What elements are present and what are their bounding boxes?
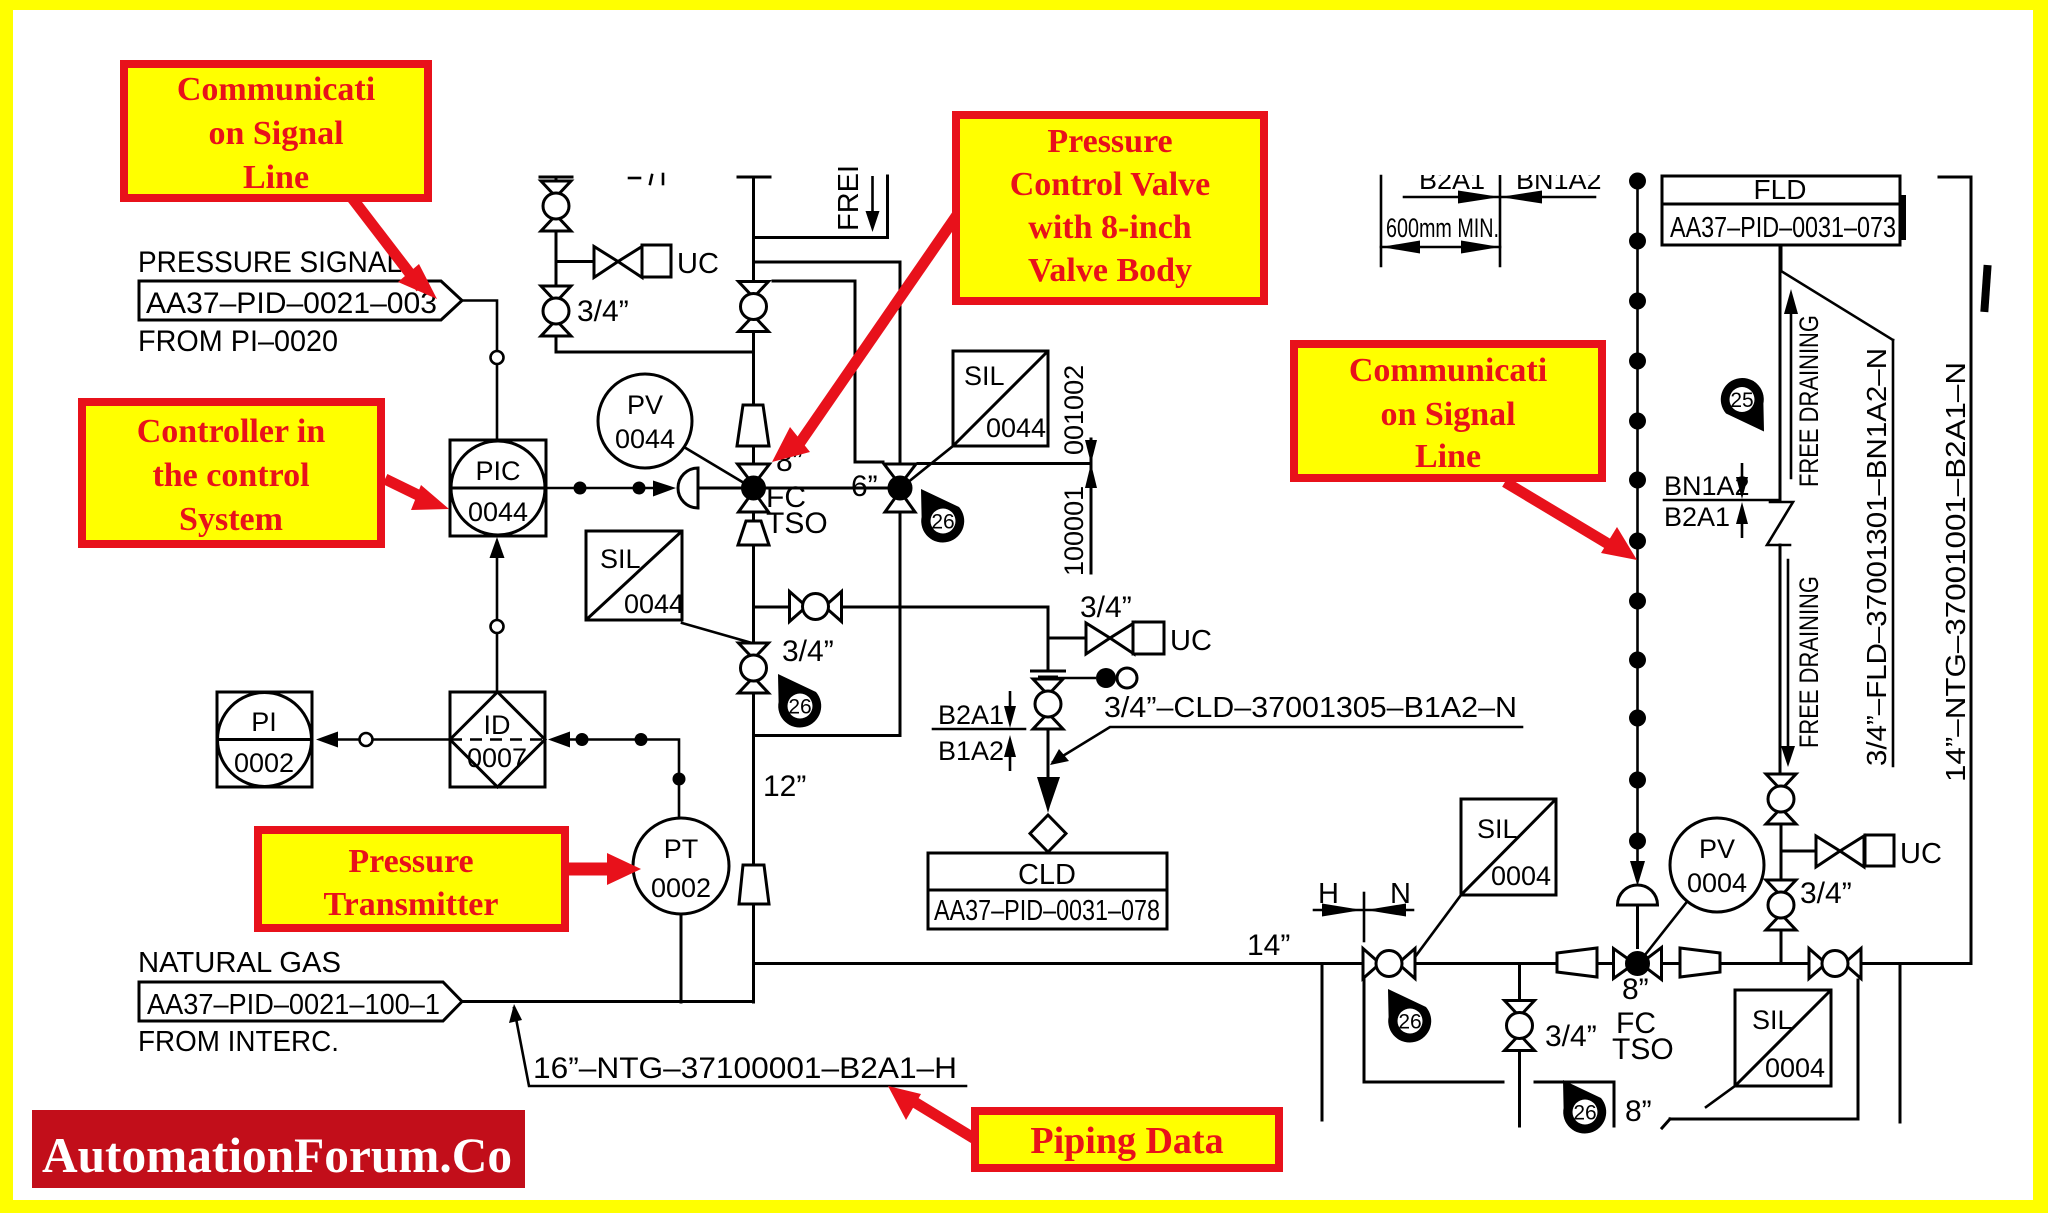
arrow PIC signal to dome xyxy=(653,481,676,497)
wire riser top tick xyxy=(738,176,770,179)
wire 6-inch valve bottom return xyxy=(754,511,901,736)
wire PIC up signal upper xyxy=(496,634,499,692)
wire H N marker tick xyxy=(1363,893,1366,941)
arrow dim HN left xyxy=(1366,904,1406,917)
actuator dome PIC valve xyxy=(678,468,698,508)
wire cropped text mark a xyxy=(629,177,640,180)
wire 3/4 branch stem upper xyxy=(1518,964,1521,1002)
svg-text:0004: 0004 xyxy=(1687,868,1747,898)
wire SIL0044-2 leader xyxy=(907,446,953,483)
instrument ID-0007 diamond xyxy=(450,692,545,787)
wire B2A1 B1A2 divider xyxy=(933,728,1025,731)
wire drain label underline vertical xyxy=(1892,340,1895,766)
svg-text:AA37–PID–0031–073: AA37–PID–0031–073 xyxy=(1670,212,1896,244)
arrow drain solid into diamond xyxy=(1037,777,1060,813)
valve control 6-inch xyxy=(884,464,916,512)
wire left vent line vertical xyxy=(555,177,558,193)
arrow signal down into dome xyxy=(1630,861,1645,886)
wire reducer to ballvalve4 xyxy=(1720,962,1809,965)
reducer on 12-inch riser lower xyxy=(739,865,769,904)
svg-text:3/4”–FLD–37001301–BN1A2–N: 3/4”–FLD–37001301–BN1A2–N xyxy=(1861,348,1892,766)
wire free draining 1 underline xyxy=(1790,313,1793,478)
wire PV0044 leader xyxy=(684,447,749,486)
svg-text:0044: 0044 xyxy=(615,424,675,454)
callout arrow controller xyxy=(385,479,424,498)
instrument PV-0004 circle xyxy=(1670,818,1764,912)
svg-text:3/4”–CLD–37001305–B1A2–N: 3/4”–CLD–37001305–B1A2–N xyxy=(1104,692,1517,724)
actuator stem PV-0004 xyxy=(1636,905,1639,949)
svg-text:3/4”: 3/4” xyxy=(577,295,629,328)
svg-text:Controller in: Controller in xyxy=(137,413,326,450)
valve CLD drain (x1048 y704) xyxy=(1033,679,1063,729)
instrument PI-0002 circle xyxy=(218,693,312,787)
wire FREI vent loop xyxy=(754,176,888,238)
arrow marker B2A1 up xyxy=(1736,502,1748,538)
svg-text:3/4”: 3/4” xyxy=(1545,1020,1597,1053)
valve hand vent 3/4 (x556 y311) xyxy=(541,286,571,336)
arrow leader 16-inch xyxy=(509,1004,522,1023)
wire PIC to control valve signal xyxy=(546,487,654,490)
svg-text:PRESSURE SIGNAL: PRESSURE SIGNAL xyxy=(138,246,402,279)
svg-text:System: System xyxy=(179,501,283,538)
instrument PIC-0044 midline xyxy=(451,487,545,490)
logo AutomationForum.Co xyxy=(32,1110,525,1188)
reducer left of 8-inch valve xyxy=(1557,948,1597,977)
valve control PV-0004 8-inch FC TSO xyxy=(1614,948,1662,980)
wire drain between valves xyxy=(1780,824,1783,880)
callout box pressure transmitter xyxy=(258,830,565,928)
arrow dim 600mm right xyxy=(1461,241,1500,254)
wire drain leader diagonal xyxy=(1781,271,1893,340)
svg-text:the control: the control xyxy=(152,457,309,494)
wire CLD drop blind to valve xyxy=(1047,638,1050,668)
function box SIL-0044-1 xyxy=(586,531,682,620)
flag NATURAL GAS xyxy=(139,982,462,1021)
arrow marker B1A2 up xyxy=(1004,735,1016,771)
wire loop right segment xyxy=(1535,1082,1614,1126)
teardrop 26 at 14-inch valve xyxy=(1388,989,1431,1043)
wire vent top tick xyxy=(540,176,572,179)
arrow line class upper xyxy=(1085,440,1097,464)
wire ballvalve4 to right riser xyxy=(1860,962,1971,965)
svg-text:N: N xyxy=(1390,878,1411,910)
svg-text:6”: 6” xyxy=(851,470,878,503)
function box SIL-0004-1 xyxy=(1461,799,1556,895)
valve 3/4 drop (x1519.5 y1025.5) xyxy=(1505,1001,1535,1051)
svg-text:FREE DRAINING: FREE DRAINING xyxy=(1794,576,1824,748)
svg-text:PIC: PIC xyxy=(475,456,520,486)
svg-text:ID: ID xyxy=(484,710,511,740)
teardrop 26 at 8-inch loop xyxy=(1563,1080,1606,1134)
svg-text:TSO: TSO xyxy=(766,507,828,540)
wire loop hook end xyxy=(1662,1119,1670,1128)
svg-text:AA37–PID–0031–078: AA37–PID–0031–078 xyxy=(934,895,1160,927)
junction dot PT riser xyxy=(673,773,686,786)
teardrop 25 xyxy=(1721,378,1764,432)
svg-text:UC: UC xyxy=(677,248,719,280)
wire loop A to 6-inch valve xyxy=(754,262,901,463)
svg-text:CLD: CLD xyxy=(1018,859,1076,891)
svg-text:UC: UC xyxy=(1900,838,1942,870)
arrow marker BN1A2 down xyxy=(1736,463,1748,499)
valve UC gate FLD (x1840.5 y851) xyxy=(1816,836,1864,867)
box UC vent xyxy=(642,245,671,277)
svg-text:on Signal: on Signal xyxy=(208,115,343,152)
instrument ID-0007 dashed midline xyxy=(450,738,545,741)
svg-text:FREI: FREI xyxy=(833,165,865,231)
junction dot PIC out 2 xyxy=(633,482,646,495)
svg-text:SIL: SIL xyxy=(1752,1005,1793,1035)
signal comm line dotted with junction dots xyxy=(1629,173,1646,863)
svg-text:PV: PV xyxy=(1699,834,1735,864)
svg-text:TSO: TSO xyxy=(1612,1033,1674,1066)
svg-text:Piping Data: Piping Data xyxy=(1030,1120,1223,1162)
svg-text:H: H xyxy=(1318,878,1339,910)
arrow FREI down xyxy=(866,176,880,232)
wire pipe break Z symbol xyxy=(1767,502,1793,545)
svg-text:B2A1: B2A1 xyxy=(1664,502,1730,532)
svg-text:0044: 0044 xyxy=(624,589,684,619)
svg-text:with 8-inch: with 8-inch xyxy=(1028,209,1192,246)
callout arrow pressure transmitter xyxy=(568,863,610,876)
wire PI to o xyxy=(337,738,359,741)
wire loop under ballvalve 14 xyxy=(1364,980,1503,1082)
wire dim 600mm line xyxy=(1381,246,1500,249)
valve hand vent top (x556 y206) xyxy=(541,181,571,231)
callout arrow communication signal line right xyxy=(1505,482,1615,548)
svg-text:FREE DRAINING: FREE DRAINING xyxy=(1794,315,1824,487)
callout box piping data xyxy=(975,1111,1279,1168)
wire dim top line xyxy=(1404,196,1595,199)
wire dome stem to valve1 xyxy=(698,487,742,490)
valve control PV-0044 8-inch FC TSO xyxy=(738,464,770,512)
svg-text:AutomationForum.Co: AutomationForum.Co xyxy=(42,1127,512,1183)
arrow into ID xyxy=(548,732,570,748)
wire drop at 1900 xyxy=(1899,964,1902,1123)
svg-text:14”–NTG–37001001–B2A1–N: 14”–NTG–37001001–B2A1–N xyxy=(1940,362,1971,782)
callout box communication signal line left xyxy=(124,64,428,198)
svg-text:0004: 0004 xyxy=(1491,861,1551,891)
svg-text:16”–NTG–37100001–B2A1–H: 16”–NTG–37100001–B2A1–H xyxy=(533,1052,957,1085)
svg-text:3/4”: 3/4” xyxy=(1800,877,1852,910)
valve FLD drain upper (x1781 y799) xyxy=(1766,774,1796,824)
wire valve1 to valve2 link xyxy=(764,487,889,490)
node o flag to PIC xyxy=(491,351,504,364)
arrow dim 600mm left xyxy=(1381,241,1420,254)
svg-text:B1A2: B1A2 xyxy=(938,736,1004,766)
svg-text:0044: 0044 xyxy=(986,413,1046,443)
arrow FREE DRAINING down xyxy=(1781,746,1795,767)
svg-text:Line: Line xyxy=(243,159,309,196)
diamond CLD injection point xyxy=(1030,815,1066,852)
valve FLD drain lower (x1781 y905) xyxy=(1766,880,1796,930)
wire flag1 to PIC down xyxy=(462,301,497,351)
svg-text:FLD: FLD xyxy=(1754,174,1807,205)
arrow marker B2A1 down xyxy=(1004,691,1016,728)
valve riser isolation (x753.5 y306.5) xyxy=(739,282,769,332)
svg-text:0007: 0007 xyxy=(467,743,527,773)
callout arrow piping data xyxy=(911,1100,975,1139)
wire 8-inch valve to reducer xyxy=(1662,962,1680,965)
arrow leader CLD xyxy=(1050,749,1069,765)
svg-text:PI: PI xyxy=(251,707,277,737)
svg-text:Line: Line xyxy=(1415,438,1481,475)
wire cropped text mark c xyxy=(662,174,665,184)
instrument PIC-0044 square xyxy=(450,440,546,536)
svg-text:SIL: SIL xyxy=(600,544,641,574)
svg-text:Transmitter: Transmitter xyxy=(324,886,499,923)
svg-text:Valve Body: Valve Body xyxy=(1028,252,1192,289)
junction dot PIC out 1 xyxy=(574,482,587,495)
svg-text:8”: 8” xyxy=(1622,973,1649,1006)
callout arrow pressure control valve xyxy=(797,215,957,447)
actuator dome PV-0004 valve xyxy=(1618,885,1658,905)
valve 14-inch ball (x1389 y963.5) xyxy=(1363,949,1415,979)
wire H N dim line xyxy=(1314,909,1413,912)
wire drain pipe upper segment xyxy=(1779,245,1782,500)
wire o to ID xyxy=(374,738,450,741)
box UC CLD xyxy=(1133,622,1164,654)
wire 16-inch label leader xyxy=(514,1008,966,1086)
callout box pressure control valve xyxy=(956,115,1264,301)
wire drain pipe mid segment xyxy=(1779,545,1782,775)
svg-text:3/4”: 3/4” xyxy=(1080,591,1132,624)
arrow dim HN right xyxy=(1322,904,1362,917)
wire loop B to 6-inch valve xyxy=(773,281,883,462)
wire PV0004 leader xyxy=(1641,903,1686,960)
reducer right of 8-inch valve xyxy=(1680,948,1720,977)
teardrop 26 at 6-inch valve xyxy=(921,489,964,543)
instrument PI-0002 midline xyxy=(218,738,311,741)
wire SIL0044-1 leader xyxy=(682,623,752,643)
svg-text:BN1A2: BN1A2 xyxy=(1664,471,1750,501)
svg-text:SIL: SIL xyxy=(964,361,1005,391)
svg-text:Communicati: Communicati xyxy=(177,71,375,108)
wire drain UC branch xyxy=(1781,850,1816,853)
svg-text:FROM PI–0020: FROM PI–0020 xyxy=(138,325,338,358)
wire main 12-inch riser vertical pipe xyxy=(752,177,755,1002)
spectacle blind plates xyxy=(1030,671,1066,677)
instrument PV-0044 circle xyxy=(598,374,692,468)
svg-text:14”: 14” xyxy=(1247,929,1290,962)
arrow up into PIC xyxy=(490,537,505,558)
instrument PIC-0044 circle xyxy=(451,441,545,535)
function box SIL-0044-2 xyxy=(953,351,1048,446)
arrow dim B2A1 right xyxy=(1458,191,1500,204)
wire vent UC branch xyxy=(556,260,592,263)
spectacle blind closed disc xyxy=(1096,668,1116,688)
wire pipe valve to reducer xyxy=(1415,962,1556,965)
wire bottom 14-inch pipe xyxy=(754,962,1364,965)
teardrop 26 at bypass valve xyxy=(778,674,821,728)
wire vent between valves xyxy=(555,219,558,298)
break tick right pipe xyxy=(1980,265,1991,312)
box CLD table xyxy=(928,853,1167,929)
wire CLD valve to drain arrow xyxy=(1047,729,1050,777)
junction dot ID out 1 xyxy=(576,733,589,746)
svg-text:Pressure: Pressure xyxy=(1047,123,1172,160)
wire drain valve to pipe xyxy=(1780,930,1783,964)
wire o to PIC top xyxy=(496,365,499,440)
svg-text:0004: 0004 xyxy=(1765,1053,1825,1083)
valve UC gate CLD (x1109.5 y638) xyxy=(1086,623,1134,654)
svg-text:Communicati: Communicati xyxy=(1349,352,1547,389)
valve UC gate vent (x617.5 y261.5) xyxy=(594,247,642,278)
svg-text:PV: PV xyxy=(627,390,663,420)
wire 3/4 branch stem lower xyxy=(1518,1050,1521,1126)
svg-text:100001: 100001 xyxy=(1059,486,1089,576)
arrow line class lower xyxy=(1085,464,1097,489)
wire free draining 2 underline xyxy=(1787,560,1790,747)
function box SIL-0004-2 xyxy=(1735,990,1831,1086)
svg-text:PT: PT xyxy=(664,834,699,864)
wire right riser xyxy=(1939,177,1971,964)
svg-text:B2A1: B2A1 xyxy=(938,700,1004,730)
valve outlet ball (x1835 y963.5) xyxy=(1809,949,1861,979)
svg-text:12”: 12” xyxy=(763,770,806,803)
svg-text:AA37–PID–0021–100–1: AA37–PID–0021–100–1 xyxy=(147,989,440,1021)
spectacle blind link xyxy=(1058,677,1096,680)
wire line-class boundary vertical xyxy=(1090,439,1093,573)
callout box controller xyxy=(82,402,381,544)
svg-text:001002: 001002 xyxy=(1059,365,1089,455)
wire reducer to 8-inch valve xyxy=(1597,962,1613,965)
wire CLD UC branch xyxy=(1048,637,1086,640)
svg-text:25: 25 xyxy=(1730,389,1753,412)
wire loop under ballvalve2 xyxy=(1670,980,1858,1119)
instrument ID-0007 square xyxy=(450,692,545,787)
wire SIL0004-1 leader xyxy=(1412,895,1461,961)
node o PI to ID xyxy=(360,733,373,746)
svg-text:NATURAL GAS: NATURAL GAS xyxy=(138,947,341,979)
wire bypass 607 right xyxy=(842,607,1048,638)
wire cropped text mark b xyxy=(650,175,652,184)
svg-text:0002: 0002 xyxy=(651,873,711,903)
valve bypass ball (x815.5 y606.5) xyxy=(790,592,842,622)
wire SIL0004-2 leader xyxy=(1706,1086,1735,1107)
reducer above control valve 1 xyxy=(737,405,769,446)
wire ID to PT corner xyxy=(568,740,679,819)
callout box communication signal line right xyxy=(1294,344,1602,478)
arrow FREE DRAINING up xyxy=(1784,289,1798,314)
arrow into PI xyxy=(316,732,338,748)
svg-text:0002: 0002 xyxy=(234,748,294,778)
svg-text:3/4”: 3/4” xyxy=(782,635,834,668)
wire vent valve2 to corner to riser xyxy=(556,324,754,352)
wire 6-inch valve top header to line-class marker xyxy=(918,462,1091,465)
wire PT to bottom pipe xyxy=(680,914,683,1002)
wire drain line from FLD box xyxy=(1780,245,1783,271)
box UC FLD xyxy=(1865,835,1894,866)
svg-text:AA37–PID–0021–003: AA37–PID–0021–003 xyxy=(146,287,437,320)
junction dot ID out 2 xyxy=(635,733,648,746)
svg-text:FROM INTERC.: FROM INTERC. xyxy=(138,1026,339,1058)
svg-text:600mm MIN.: 600mm MIN. xyxy=(1386,213,1499,243)
svg-text:SIL: SIL xyxy=(1477,814,1518,844)
svg-text:8”: 8” xyxy=(1625,1095,1652,1128)
wire dim B2A1 BN1A2 left tick xyxy=(1380,176,1383,266)
wire dim B2A1 BN1A2 center tick xyxy=(1499,176,1502,266)
reducer below control valve 1 xyxy=(738,521,769,545)
arrow dim BN1A2 left xyxy=(1500,191,1542,204)
node o PIC to ID xyxy=(491,620,504,633)
break tick mid pipe xyxy=(1899,195,1906,240)
wire 3/4 CLD label leader xyxy=(1053,727,1522,762)
wire bottom 16-inch pipe xyxy=(462,1000,754,1003)
valve bypass 3/4 below (x753.5 y668) xyxy=(739,643,769,693)
spectacle blind open disc xyxy=(1117,668,1137,688)
wire PIC up signal lower xyxy=(496,556,499,619)
box FLD table xyxy=(1662,176,1900,245)
callout arrow communication signal line left xyxy=(352,198,421,288)
flag PRESSURE SIGNAL xyxy=(139,281,462,320)
svg-text:on Signal: on Signal xyxy=(1380,396,1515,433)
wire BN1A2 B2A1 divider xyxy=(1664,499,1780,502)
wire drop at 1322 xyxy=(1321,964,1324,1121)
crop artifact white band over dim labels xyxy=(1404,156,1619,175)
instrument PT-0002 circle xyxy=(633,818,729,914)
wire bypass 607 xyxy=(754,606,790,609)
instrument PI-0002 square xyxy=(217,692,312,787)
svg-text:0044: 0044 xyxy=(468,497,528,527)
svg-text:Pressure: Pressure xyxy=(348,843,473,880)
svg-text:Control Valve: Control Valve xyxy=(1010,166,1211,203)
svg-text:UC: UC xyxy=(1170,625,1212,657)
